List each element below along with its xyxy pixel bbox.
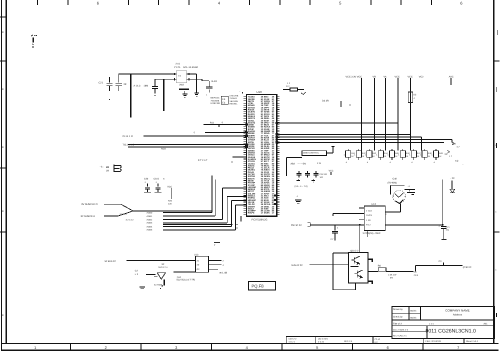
wire oscillator output [191, 78, 202, 80]
border bottom zone dividers and numbers [70, 344, 72, 351]
connector symbol TB1 [114, 165, 121, 173]
wire staircase 4 [163, 222, 227, 224]
wire RTC net to U13 [127, 259, 196, 261]
decoupling capacitor C101 symbol [157, 184, 159, 187]
svg-text:5C2 5C1(±4 7·7F): 5C2 5C1(±4 7·7F) [177, 279, 196, 282]
svg-text:C101: C101 [154, 178, 160, 181]
diode D5 to ground [450, 189, 455, 192]
capacitor C22 [118, 74, 120, 82]
svg-text:D: D [2, 88, 4, 91]
svg-text:Title of 2: Title of 2 [393, 323, 402, 326]
svg-text:(A2 4-227): (A2 4-227) [318, 338, 328, 341]
svg-text:AVC: AVC [449, 75, 454, 78]
svg-text:⊞ 1.4B: ⊞ 1.4B [220, 272, 228, 275]
svg-text:4 CL-4: 4 CL-4 [289, 340, 296, 343]
IC U13 body [196, 256, 209, 272]
IC U10 left pin stubs [244, 96, 247, 98]
wire Q10 bottom to feedback [355, 283, 357, 290]
wire Q10 output [368, 270, 378, 272]
svg-text:Check by: Check by [393, 316, 403, 319]
svg-text:98/2/4: 98/2/4 [410, 317, 417, 320]
power rail drop 6 short [421, 137, 423, 150]
ground under capacitor bank [295, 199, 302, 201]
svg-text:PW 3C 2C: PW 3C 2C [291, 224, 302, 227]
svg-text:VA: VA [384, 75, 387, 78]
wire R60 to C72 [386, 270, 413, 272]
svg-text:3: 3 [175, 345, 177, 350]
pull-up resistor row R41-R49 [347, 149, 349, 151]
border right zone dividers [494, 60, 500, 62]
wire bus IC second long [277, 141, 445, 143]
wire staircase 5 [163, 225, 231, 227]
svg-text:Y1 CL: Y1 CL [174, 66, 181, 69]
svg-text:3 2 14 2: 3 2 14 2 [126, 218, 135, 221]
svg-text:(T0-92M): (T0-92M) [388, 181, 398, 184]
oscillator Y1 [176, 71, 186, 83]
dark pin blobs IC right lower [274, 195, 277, 197]
svg-text:VR: VR [373, 75, 377, 78]
svg-text:ADB3: ADB3 [147, 222, 153, 225]
ground dashes under decoupling caps [144, 192, 151, 194]
svg-text:A41: A41 [484, 323, 489, 326]
svg-text:2^ PC2: 2^ PC2 [120, 213, 128, 216]
wire emitter of Q3 down [399, 203, 401, 212]
capacitor C42 plates [407, 191, 415, 193]
svg-text:CL14 1 O: CL14 1 O [123, 135, 133, 138]
svg-text:3 CP3(C8) - 5WC: 3 CP3(C8) - 5WC [363, 232, 381, 235]
thick bar under oscillator [179, 88, 189, 90]
svg-text:UGBCRR: UGBCRR [211, 102, 221, 105]
svg-text:5: 5 [316, 345, 318, 350]
svg-text:A 14.3: A 14.3 [134, 85, 141, 88]
border bottom zone strip lines [2, 343, 499, 345]
wire feedback left down [332, 264, 334, 290]
border inner left line [5, 0, 7, 344]
border outer right edge marks [496, 30, 498, 35]
border right line [493, 0, 495, 344]
capacitor C21 [109, 77, 111, 83]
svg-text:ADB0: ADB0 [147, 212, 153, 215]
wire XIN to oscillator Y1 [131, 73, 173, 75]
wire U13 out3 [208, 268, 218, 270]
wire U12 bottom stub [367, 230, 369, 237]
svg-text:CHCVRB: CHCVRB [230, 95, 239, 98]
svg-text:U13: U13 [194, 253, 199, 256]
svg-text:S2 8US 2C: S2 8US 2C [105, 260, 117, 263]
svg-text:U2O 2-2: U2O 2-2 [289, 338, 298, 341]
svg-text:⊥: ⊥ [296, 195, 298, 198]
wire XIN vertical [130, 74, 132, 118]
wire drop to Q10 top [359, 225, 361, 253]
title block row dividers [392, 319, 494, 321]
svg-text:2 CLK: 2 CLK [366, 210, 373, 213]
svg-text:32.768K: 32.768K [154, 284, 163, 287]
svg-text:U12: U12 [372, 203, 377, 206]
svg-text:2R: 2R [106, 170, 109, 173]
wire XOUT vertical [163, 79, 165, 111]
svg-text:(C30 2C: (C30 2C [463, 266, 472, 269]
wire U13 out2 [208, 264, 221, 266]
power rail drop 2 [374, 78, 376, 150]
wire long net to right circuit [163, 224, 232, 226]
svg-text:MEP1BC: MEP1BC [211, 97, 220, 100]
svg-text:3V SUSCLK O: 3V SUSCLK O [81, 203, 97, 206]
svg-text:2R: 2R [106, 166, 109, 169]
power rail drop 4 [397, 78, 399, 150]
wire capacitors to XIN [119, 73, 131, 75]
svg-text:→ 2C: → 2C [449, 177, 455, 180]
wire jog up [415, 266, 417, 272]
wire pin stub y157 [233, 156, 247, 158]
wire VCC stub down [170, 188, 172, 199]
info row top line [286, 335, 392, 337]
power rail drop 3 [385, 78, 387, 150]
transistor Q10a symbol [351, 256, 359, 264]
wire staircase 3 [163, 218, 223, 220]
wire base of Q3 up [390, 185, 392, 194]
svg-text:2R: 2R [124, 83, 127, 86]
svg-text:HBV8EL: HBV8EL [230, 102, 239, 105]
capacitor bank row [298, 171, 300, 173]
title block column dividers [420, 306, 422, 320]
wire stub left of cap bank [286, 157, 288, 176]
title block outer box [392, 306, 494, 338]
wire diagonal merge lower [118, 211, 133, 216]
svg-text:RIAPS: RIAPS [248, 212, 255, 215]
junction dots below IC [236, 224, 237, 225]
svg-text:(3.3– 4 – 7.0): (3.3– 4 – 7.0) [295, 185, 308, 188]
info row dividers [285, 336, 287, 343]
svg-text:2A2 R 2 4: 2A2 R 2 4 [158, 266, 168, 269]
wire bus IC to rail 4 [277, 122, 399, 124]
border left zone dividers and letters [0, 16, 6, 18]
Q10 output hook upper [368, 259, 372, 262]
svg-text:D3 3R: D3 3R [322, 100, 329, 103]
svg-text:FILE: 2C24C2R: FILE: 2C24C2R [426, 340, 442, 343]
IC U10 right pin stubs [277, 96, 280, 98]
power rail drop 5 [410, 78, 412, 150]
svg-text:7VDNXB: 7VDNXB [211, 99, 220, 102]
border outer left line [1, 0, 3, 351]
wire staircase 6 [163, 229, 236, 231]
capacitor bank second row [297, 179, 299, 180]
power rail drop 1 [361, 78, 363, 150]
wire U13 second input [173, 271, 195, 273]
IC U12 body [364, 206, 385, 231]
transistor Q3 circle [393, 190, 406, 203]
svg-text:2W2: 2W2 [179, 84, 184, 87]
svg-text:9011 CG26NL3CN1.0: 9011 CG26NL3CN1.0 [426, 328, 476, 334]
wire into U12 pin2 [333, 212, 359, 214]
svg-text:D: D [2, 314, 4, 317]
wire Q3 to U12 [385, 211, 400, 213]
svg-text:Address: Address [453, 314, 463, 317]
sheet reference label box [248, 282, 275, 290]
svg-text:XBXXPB: XBXXPB [230, 100, 239, 103]
ferrite bead L2 on rail 5 [408, 92, 412, 103]
svg-text:SUS A2 2C: SUS A2 2C [291, 264, 303, 267]
svg-text:FS 2: FS 2 [366, 223, 371, 226]
ground at oscillator pin3 [194, 92, 199, 94]
svg-text:C52 4R: C52 4R [320, 173, 328, 176]
svg-text:1.5K 2W: 1.5K 2W [388, 273, 397, 276]
junction blobs IC right edge [276, 122, 279, 124]
svg-text:ADB5: ADB5 [147, 229, 153, 232]
svg-text:VCC: VCC [408, 75, 413, 78]
wire X2 to C60 [146, 274, 156, 276]
title block bottom line [392, 337, 494, 339]
svg-text:2-2 24: 2-2 24 [318, 340, 325, 343]
wire U12 output heavy [385, 224, 442, 226]
svg-text:SEC.2.4: SEC.2.4 [344, 340, 353, 343]
ground under oscillator [184, 91, 186, 94]
svg-text:ADB1: ADB1 [147, 215, 153, 218]
transistor Q10b symbol [354, 270, 362, 278]
wire staircase 2 [163, 215, 215, 217]
svg-text:Doc 2 SIZE 2-4: Doc 2 SIZE 2-4 [393, 328, 409, 331]
wire IC bottom stub [240, 216, 242, 221]
wire top of Q3 horizontal [391, 184, 405, 186]
svg-text:7: 7 [457, 345, 459, 350]
wire label to diode [451, 180, 453, 189]
power rail AVC stub [450, 78, 452, 85]
svg-text:PQ.F8: PQ.F8 [252, 284, 265, 289]
svg-text:VCC 3 3V VCC: VCC 3 3V VCC [346, 75, 363, 78]
svg-text:Re 2 CAD 2-1: Re 2 CAD 2-1 [393, 335, 407, 338]
svg-text:VCC: VCC [167, 185, 172, 188]
svg-text:D: D [2, 146, 4, 149]
capacitor C23 [154, 79, 156, 86]
svg-text:Sheet 2 of 4: Sheet 2 of 4 [466, 340, 479, 343]
wire to output label [416, 265, 463, 267]
svg-text:COMPANY NAME: COMPANY NAME [445, 309, 469, 313]
svg-text:AG8: AG8 [161, 148, 166, 151]
svg-text:DM8 CONTROL: DM8 CONTROL [303, 151, 320, 154]
wire long net resumes [310, 224, 364, 226]
capacitor C41 plates [405, 188, 416, 190]
svg-text:VCC: VCC [395, 75, 400, 78]
svg-text:C30: C30 [144, 178, 149, 181]
svg-text:E.T 2 4.7: E.T 2 4.7 [198, 159, 208, 162]
svg-text:ACL-14.318M: ACL-14.318M [183, 66, 198, 69]
svg-text:18M: 18M [144, 85, 149, 88]
wire bus IC long to right [277, 139, 453, 141]
svg-text:7XDH11: 7XDH11 [230, 97, 239, 100]
svg-text:PC97338VJG: PC97338VJG [252, 218, 268, 221]
Q10 output hook lower [368, 281, 372, 284]
svg-text:32 SUSCK A: 32 SUSCK A [81, 215, 96, 218]
revision mark top-left [31, 35, 37, 47]
svg-text:U10: U10 [257, 90, 263, 94]
svg-text:VC2: VC2 [419, 75, 424, 78]
ground under C60 [140, 286, 145, 288]
svg-text:2A: 2A [445, 153, 448, 156]
svg-text:6: 6 [387, 345, 389, 350]
svg-text:5%: 5% [390, 276, 393, 279]
wire U13 out1 [208, 259, 221, 261]
svg-text:17 M15K: 17 M15K [261, 212, 270, 215]
Q10 inner base dash [351, 265, 359, 267]
svg-text:98/2/4: 98/2/4 [410, 309, 417, 312]
svg-text:~2=: ~2= [100, 166, 105, 169]
svg-text:D: D [2, 31, 4, 34]
svg-text:C40: C40 [393, 177, 398, 180]
wire cap bank to DM8 box [287, 156, 302, 158]
wire XOUT to oscillator Y1 [155, 78, 173, 80]
svg-text:D: D [2, 210, 4, 213]
wire SUS to Q10 [310, 263, 349, 265]
transistor pair Q10 body [348, 252, 368, 283]
wire clock bus R11 [204, 123, 247, 125]
junction blobs IC left edge [245, 123, 248, 125]
svg-text:C2.42: C2.42 [375, 338, 381, 341]
svg-text:1: 1 [34, 345, 36, 350]
pin1 mark IC top left [242, 92, 243, 93]
svg-text:C21: C21 [99, 81, 104, 84]
connector box J3 [302, 151, 327, 156]
svg-text:OUT8: OUT8 [366, 214, 373, 217]
wire X2 down thick [163, 279, 165, 285]
wire VCC drop right [442, 180, 444, 227]
wire staircase 1 [163, 212, 212, 214]
svg-text:2: 2 [105, 345, 107, 350]
capacitor C24 on clock line [208, 81, 210, 86]
svg-text:Drawn by: Drawn by [393, 308, 404, 311]
wire feedback bottom [333, 289, 356, 291]
svg-text:G-R1: G-R1 [211, 80, 217, 83]
wire diagonal merge upper [121, 204, 133, 211]
wire bus IC to rail 6 [277, 136, 422, 138]
svg-text:— —5%: — —5% [298, 162, 307, 165]
wire oscillator pin3 to ground [191, 73, 196, 75]
resistor network RP5 [221, 96, 228, 104]
capacitor C70 on drop [334, 225, 336, 231]
IC U10 body [247, 94, 277, 216]
svg-text:VCC: VCC [329, 169, 334, 172]
svg-text:ADB2: ADB2 [147, 218, 153, 221]
svg-text:1 S0: 1 S0 [366, 219, 371, 222]
svg-text:ADB4: ADB4 [147, 225, 153, 228]
wire merged clock bus [132, 210, 212, 212]
decoupling capacitor C30 symbol [147, 184, 149, 187]
IC U12 left pin stubs [359, 207, 365, 209]
svg-text:Q10 2 2: Q10 2 2 [350, 249, 359, 252]
wire feedback top [333, 252, 348, 254]
wire bus IC to rail 5 [277, 133, 411, 135]
wire bus to pin left [205, 131, 247, 133]
wire J3 to corner [327, 152, 334, 154]
border top tick marks [37, 0, 39, 5]
svg-text:AB2: AB2 [291, 162, 296, 165]
